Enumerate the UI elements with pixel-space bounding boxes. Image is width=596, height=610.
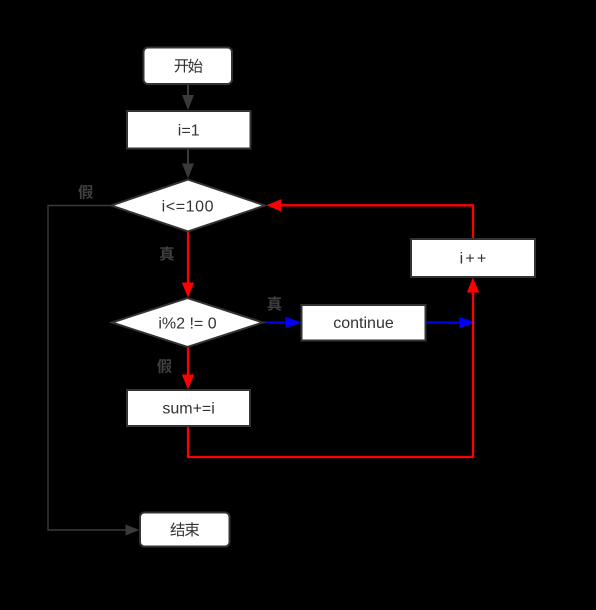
label 假 (false) on red branch below diamond i%2 — [157, 359, 172, 374]
terminator box 开始 (start) — [144, 48, 233, 85]
wire: true branch, diamond i<=100 down to diamond i%2 — [182, 232, 194, 298]
wire: continue box right to red junction line — [426, 317, 476, 328]
wire: true branch, diamond i%2 right to continue box — [263, 317, 302, 328]
decision diamond i%2 != 0 — [112, 298, 263, 347]
terminator box 结束 (end) — [140, 513, 230, 547]
label 真 (true) on red branch below diamond i<=100 — [160, 246, 174, 261]
wire: i=1 to diamond i<=100 — [182, 149, 194, 179]
svg-text:i=1: i=1 — [178, 122, 200, 139]
label 假 (false) left of diamond i<=100 — [78, 185, 93, 200]
wire: false branch from diamond i<=100 left, down to end box — [48, 206, 140, 536]
process box i++ — [411, 239, 535, 277]
wire: sum+=i down, right, up to i++ bottom — [188, 278, 479, 458]
label 真 (true) above blue branch right of diamond i%2 — [267, 296, 281, 311]
wire: start to i=1 — [182, 84, 194, 110]
wire: false branch, diamond i%2 down to sum+=i — [182, 348, 194, 390]
svg-text:continue: continue — [333, 315, 394, 332]
wire: i++ top, left, into diamond i<=100 right vertex — [267, 199, 474, 238]
process box continue — [302, 305, 426, 341]
svg-text:i++: i++ — [460, 251, 489, 268]
svg-text:i<=100: i<=100 — [162, 199, 215, 216]
process box sum+=i — [127, 390, 250, 426]
svg-text:i%2 != 0: i%2 != 0 — [158, 315, 216, 332]
process box i=1 — [127, 111, 251, 149]
decision diamond i<=100 — [111, 180, 265, 232]
svg-text:sum+=i: sum+=i — [162, 401, 214, 418]
